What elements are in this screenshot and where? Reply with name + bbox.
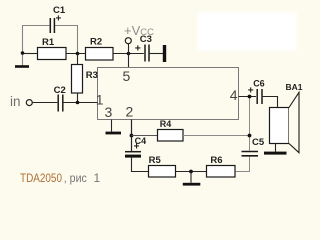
wire R6 to C5	[236, 157, 250, 172]
capacitor C1	[50, 18, 54, 33]
white patch (erased watermark)	[197, 12, 297, 51]
svg-text:+: +	[248, 86, 254, 97]
svg-text:1: 1	[96, 92, 104, 108]
wire C6 to speaker	[262, 97, 278, 108]
ground speaker	[264, 152, 287, 155]
wire R2 to node	[113, 53, 144, 55]
svg-text:+: +	[56, 14, 62, 25]
wire ground stub left	[22, 53, 24, 66]
resistor R1	[38, 48, 67, 60]
wire in to C2	[33, 102, 58, 104]
wire Vcc stub	[128, 44, 130, 54]
op-amp IC TDA2050 body	[98, 68, 239, 120]
wire R1 to R2	[66, 53, 85, 55]
wire C5 to pin4 node	[249, 97, 251, 151]
wire to R1	[23, 53, 38, 55]
node Vcc	[127, 52, 131, 56]
node left	[21, 51, 25, 55]
capacitor C3	[145, 45, 149, 62]
svg-text:R1: R1	[42, 37, 55, 48]
svg-text:, рис: , рис	[64, 171, 87, 185]
svg-text:TDA2050: TDA2050	[20, 171, 62, 185]
wire R3 bottom stub	[77, 93, 79, 103]
svg-text:+: +	[134, 142, 140, 153]
svg-text:in: in	[10, 94, 21, 109]
wire R4 to C5 line	[183, 135, 250, 137]
wire node to R4	[132, 135, 158, 137]
node R4-C5	[248, 134, 252, 138]
capacitor C2	[58, 95, 63, 112]
resistor R3	[72, 65, 83, 94]
svg-text:R3: R3	[86, 70, 98, 81]
svg-text:R2: R2	[90, 37, 102, 48]
node R5-R6-ground	[189, 170, 193, 174]
svg-text:2: 2	[126, 104, 134, 120]
resistor R4	[158, 130, 184, 142]
ground G1	[15, 65, 29, 68]
terminal +Vcc	[125, 38, 131, 44]
resistor R2	[86, 48, 114, 61]
bar electrode C3	[163, 45, 166, 62]
node pin2-R4-C4	[130, 134, 134, 138]
wire C1 loop	[23, 26, 78, 53]
wire R5 to R6	[176, 171, 207, 173]
svg-text:3: 3	[105, 104, 113, 120]
svg-text:R6: R6	[210, 155, 222, 166]
svg-text:C2: C2	[54, 85, 66, 96]
svg-text:4: 4	[230, 87, 238, 103]
node pin4-C6	[248, 95, 252, 99]
svg-text:5: 5	[123, 68, 131, 84]
ground mid	[183, 183, 201, 186]
speaker BA1 body	[270, 108, 290, 144]
svg-text:C3: C3	[140, 34, 152, 45]
svg-text:C6: C6	[253, 79, 265, 89]
wire ground stub mid	[190, 172, 192, 183]
resistor R6	[207, 166, 236, 178]
svg-text:R4: R4	[160, 119, 172, 129]
capacitor C5	[242, 152, 259, 156]
wire pin 2 down	[131, 120, 133, 152]
terminal in	[26, 100, 32, 106]
capacitor C6	[257, 89, 262, 104]
capacitor C4 plate bottom thick	[125, 155, 141, 158]
wire pin 4	[239, 96, 257, 98]
capacitor C4 plate top	[125, 151, 141, 153]
wire C3 to bar	[149, 53, 163, 55]
wire C2 to pin 1	[63, 102, 98, 104]
svg-text:R5: R5	[149, 155, 162, 166]
ground pin 3	[106, 132, 122, 135]
node pin1-R3	[76, 101, 80, 105]
node R1-R2-R3-C1	[76, 52, 80, 56]
svg-text:1: 1	[94, 171, 101, 185]
speaker BA1 cone	[289, 92, 299, 152]
svg-text:+: +	[135, 43, 141, 55]
svg-text:BA1: BA1	[286, 82, 303, 92]
wire pin 5	[128, 54, 130, 68]
wire R3 top stub	[77, 54, 79, 65]
wire pin 3 stub	[111, 120, 113, 132]
resistor R5	[149, 166, 176, 178]
svg-text:C5: C5	[252, 137, 265, 148]
wire speaker ground stub	[275, 144, 277, 152]
wire C4 bottom to R5	[132, 158, 149, 172]
